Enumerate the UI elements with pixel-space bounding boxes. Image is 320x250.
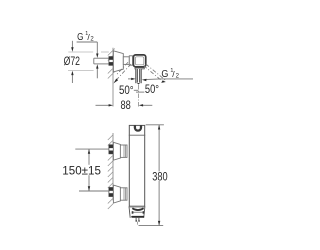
bottom cap lower dark band bbox=[131, 216, 144, 218]
diameter 72 arrow down bbox=[71, 41, 73, 52]
bottom cap mid corner blocks bbox=[132, 211, 134, 214]
bottom cap rim line bbox=[129, 206, 145, 208]
svg-text:G: G bbox=[161, 69, 168, 80]
150 +/- 15 bottom extension line bbox=[79, 190, 109, 192]
left 50 deg leader to centerline bbox=[134, 89, 139, 91]
svg-text:Ø72: Ø72 bbox=[64, 54, 81, 68]
lower wall connection: thread block bbox=[109, 188, 113, 197]
svg-text:88: 88 bbox=[121, 100, 131, 112]
380 text bbox=[152, 171, 169, 183]
svg-text:G: G bbox=[77, 32, 83, 43]
upper connection cone bbox=[113, 142, 120, 160]
50 degree diagonal centerline right bbox=[144, 64, 166, 82]
svg-text:150±15: 150±15 bbox=[62, 166, 101, 178]
G 1/2 top underline bbox=[77, 41, 98, 43]
outlet stubs below cap bbox=[136, 218, 139, 222]
outlet stub feet bbox=[136, 220, 138, 221]
G 1/2 right underline bbox=[160, 78, 193, 80]
150 +/- 15 text bbox=[62, 165, 102, 178]
50 degree diagonal centerline left bbox=[115, 62, 131, 82]
bottom cap mid line bbox=[133, 211, 144, 213]
arrowhead right diagonal bbox=[161, 80, 166, 83]
diameter 72 extension line top (light) bbox=[68, 51, 109, 53]
upper wall connection: thread block bbox=[109, 145, 113, 154]
G 1/2 right label bbox=[161, 68, 179, 80]
wall hatching upper bottom patch bbox=[108, 67, 115, 79]
diameter 72 arrow up bbox=[71, 71, 73, 83]
G 1/2 arrow down to pipe top bbox=[96, 42, 98, 58]
bottom cap sides bbox=[129, 206, 145, 217]
top port U shape bbox=[135, 125, 141, 130]
wall hatching lower drawing bbox=[108, 135, 113, 209]
88 dimension line left segment with arrow bbox=[96, 104, 114, 106]
thread block in wall (upper) bbox=[109, 57, 113, 66]
lower connection union nut bbox=[120, 188, 127, 200]
stem between cone and body (upper) bbox=[123, 56, 132, 65]
outlet centerline (lower) bbox=[136, 222, 138, 226]
svg-text:50°: 50° bbox=[119, 85, 134, 97]
380 bottom extension line bbox=[139, 225, 164, 227]
right 50 deg leader from centerline bbox=[136, 91, 144, 93]
left 50 deg horizontal arrow pointing at pipe bbox=[128, 78, 136, 80]
wall hatching upper top patch bbox=[108, 49, 115, 61]
bottom cap smile arc band bbox=[132, 208, 143, 210]
escutcheon cone (upper) bbox=[113, 51, 123, 72]
88 dimension line right segment with arrow bbox=[139, 104, 153, 106]
arrowhead left diagonal bbox=[114, 79, 119, 84]
G 1/2 right leader arrow to outlet pipe bbox=[142, 79, 160, 81]
G 1/2 arrow up to pipe bottom bbox=[96, 64, 98, 78]
svg-text:50°: 50° bbox=[145, 84, 159, 96]
outlet centerline (upper) bbox=[138, 85, 140, 107]
outlet flange below body (upper) bbox=[135, 68, 144, 69]
diameter 72 extension line bottom (light) bbox=[68, 69, 94, 71]
380 dimension line with arrows bbox=[158, 125, 160, 226]
outlet threaded pipe (upper) bbox=[136, 69, 141, 85]
150 +/- 15 dimension line with arrows bbox=[88, 149, 90, 191]
G 1/2 top label bbox=[77, 31, 94, 43]
380 top extension line bbox=[146, 124, 164, 126]
lower connection cone bbox=[113, 185, 120, 203]
150 +/- 15 top extension line bbox=[75, 148, 109, 150]
upper connection union nut bbox=[120, 145, 127, 157]
valve body square (upper) bbox=[133, 55, 145, 67]
wall line (lower drawing) bbox=[112, 133, 114, 201]
svg-text:380: 380 bbox=[152, 171, 167, 183]
wall line (upper drawing) bbox=[112, 48, 114, 107]
mixer body column bbox=[129, 125, 144, 206]
inlet pipe behind wall (G1/2 thread pipe) bbox=[94, 58, 109, 64]
body top separation line bbox=[129, 134, 145, 136]
